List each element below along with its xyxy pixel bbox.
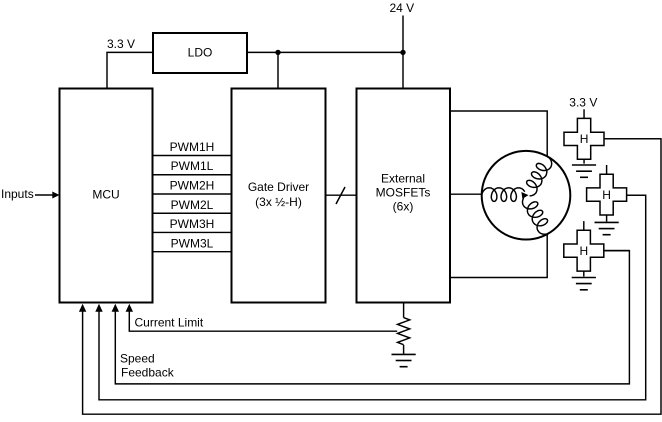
- svg-text:H: H: [579, 244, 588, 258]
- svg-text:3.3 V: 3.3 V: [107, 37, 135, 51]
- svg-text:3.3 V: 3.3 V: [569, 96, 597, 110]
- svg-text:MOSFETs: MOSFETs: [376, 186, 431, 200]
- svg-text:PWM3L: PWM3L: [171, 237, 214, 251]
- svg-text:PWM1L: PWM1L: [171, 159, 214, 173]
- svg-text:PWM1H: PWM1H: [170, 140, 215, 154]
- svg-text:External: External: [381, 172, 425, 186]
- svg-text:H: H: [602, 188, 611, 202]
- svg-text:PWM2H: PWM2H: [170, 179, 215, 193]
- svg-text:Speed: Speed: [120, 352, 155, 366]
- svg-text:Current Limit: Current Limit: [135, 316, 204, 330]
- svg-text:MCU: MCU: [92, 188, 119, 202]
- svg-text:LDO: LDO: [188, 46, 213, 60]
- svg-text:24 V: 24 V: [390, 1, 415, 15]
- svg-text:PWM2L: PWM2L: [171, 198, 214, 212]
- svg-text:(3x ½-H): (3x ½-H): [255, 195, 302, 209]
- svg-text:Feedback: Feedback: [121, 365, 175, 379]
- svg-text:PWM3H: PWM3H: [170, 217, 215, 231]
- svg-text:H: H: [580, 132, 589, 146]
- svg-text:Inputs: Inputs: [1, 187, 34, 201]
- svg-text:Gate Driver: Gate Driver: [248, 180, 309, 194]
- svg-text:(6x): (6x): [393, 200, 414, 214]
